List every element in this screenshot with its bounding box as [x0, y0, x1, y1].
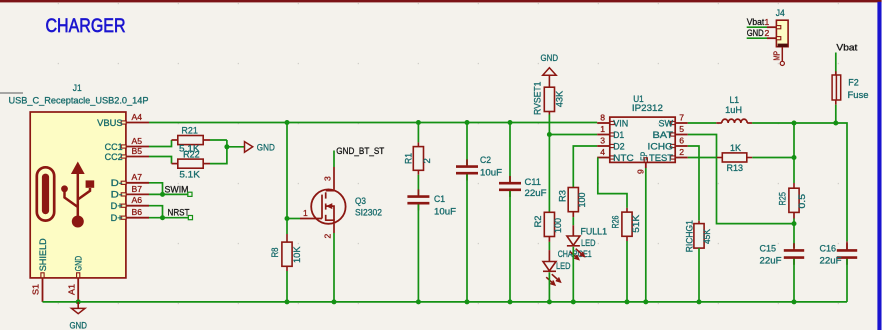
svg-text:CHARGER: CHARGER — [46, 15, 126, 37]
svg-text:J1: J1 — [73, 83, 82, 93]
svg-text:7: 7 — [679, 113, 684, 123]
U1 pin 8 VIN — [597, 122, 610, 124]
wire R8 to ground rail — [286, 271, 288, 302]
svg-text:4: 4 — [600, 147, 605, 157]
USB icon trident — [61, 162, 94, 228]
svg-text:IP2312: IP2312 — [632, 103, 663, 114]
transistor Q3 pin 1 gate lead — [300, 218, 322, 220]
resistor RVSET1 — [548, 75, 550, 87]
svg-text:VIN: VIN — [613, 118, 628, 128]
J1 pin B7 D- — [126, 193, 149, 195]
svg-text:BAT: BAT — [653, 130, 674, 140]
svg-text:C2: C2 — [480, 155, 491, 166]
svg-text:D-: D- — [111, 178, 123, 188]
junction CC pullup node — [224, 144, 229, 149]
wire VBUS rail — [149, 122, 597, 124]
resistor RICHG1 — [698, 221, 700, 224]
svg-text:22uF: 22uF — [525, 188, 547, 199]
wire C11 to ground rail — [509, 191, 511, 302]
svg-text:C11: C11 — [525, 177, 542, 188]
junction VBUS at R1 — [416, 120, 421, 125]
svg-text:R13: R13 — [727, 163, 744, 174]
wire R22 right and up to R21 — [203, 163, 210, 165]
resistor R3 — [568, 188, 578, 212]
transistor Q3 pin 2 source — [333, 224, 335, 233]
J1 pin A5 CC1 — [126, 146, 149, 148]
svg-text:GND: GND — [541, 53, 559, 64]
wire R2 to LED CHARGE1 — [548, 237, 550, 242]
svg-text:NRST: NRST — [168, 207, 190, 218]
capacitor C1 — [417, 189, 419, 196]
svg-text:22uF: 22uF — [760, 256, 782, 267]
svg-text:10uF: 10uF — [434, 207, 456, 218]
wire D1 node down to R2 — [548, 135, 550, 213]
svg-text:FULL1: FULL1 — [581, 227, 608, 237]
power symbol GND bottom — [77, 302, 79, 309]
resistor R2 — [544, 212, 554, 236]
junction ground rail at A1 — [76, 299, 81, 304]
capacitor C11 — [509, 176, 511, 183]
svg-text:B6: B6 — [132, 207, 143, 217]
U1 pin 6 ICHG — [675, 145, 688, 147]
junction ground rail at FULL1 — [571, 299, 576, 304]
junction R13 VBAT node — [792, 155, 797, 160]
svg-text:S1: S1 — [30, 284, 40, 295]
resistor R13 — [717, 157, 723, 159]
svg-text:GND: GND — [74, 256, 84, 272]
wire D1 node to U1 pin 1 — [549, 134, 597, 136]
svg-text:1: 1 — [303, 208, 308, 218]
wire R26 to ground rail — [626, 241, 628, 302]
USB icon receptacle pill — [37, 167, 54, 220]
connector J4 body — [776, 20, 788, 47]
J4 pin 1 Vbat — [747, 26, 767, 28]
wire VBUS down to Q3 gate and R8 — [286, 123, 288, 235]
wire L1 to VBAT corner — [752, 123, 847, 241]
J4 pin 2 GND — [747, 37, 767, 39]
wire Q3 drain to label — [333, 151, 335, 168]
svg-text:3: 3 — [323, 176, 333, 181]
svg-text:Vbat: Vbat — [747, 17, 765, 27]
resistor R22 — [178, 159, 203, 168]
svg-text:SHIELD: SHIELD — [38, 238, 48, 271]
gray partial line at left edge — [0, 92, 23, 94]
svg-text:2: 2 — [323, 234, 333, 239]
wire RICHG1 to ground rail — [698, 248, 700, 302]
svg-text:MP: MP — [772, 51, 782, 61]
wire RVSET1 to D1 node — [548, 115, 550, 135]
junction VBUS at C11 — [508, 120, 513, 125]
wire B6 D+ to NRST — [149, 217, 189, 219]
svg-text:2: 2 — [422, 158, 433, 163]
svg-text:100: 100 — [577, 193, 588, 208]
J1 pin S1 SHIELD stub — [42, 278, 44, 302]
svg-text:10K: 10K — [292, 246, 303, 263]
svg-text:5.1K: 5.1K — [179, 169, 200, 180]
svg-text:D+: D+ — [111, 213, 123, 223]
svg-text:B5: B5 — [132, 146, 143, 156]
wire VBUS to C2 — [466, 123, 468, 166]
svg-text:GND: GND — [69, 321, 87, 330]
svg-text:A7: A7 — [132, 172, 143, 182]
svg-text:Vbat: Vbat — [836, 42, 857, 53]
junction ground rail at C15 — [792, 299, 797, 304]
wire C1 to ground rail — [417, 204, 419, 302]
svg-text:R25: R25 — [778, 192, 789, 206]
svg-text:B7: B7 — [132, 184, 143, 194]
wire Q3 source to ground rail — [333, 233, 335, 302]
wire VBAT to R25 — [793, 123, 795, 183]
wire VBUS to C11 — [509, 123, 511, 183]
wire C15 to ground rail — [793, 259, 795, 302]
svg-text:R22: R22 — [183, 149, 200, 160]
ic U1 body — [610, 117, 675, 162]
svg-text:D-: D- — [111, 190, 123, 200]
svg-text:1: 1 — [600, 124, 605, 134]
top maroon border line — [0, 0, 883, 2]
wire U1 SW to L1 — [688, 122, 717, 124]
LED CHARGE1 — [543, 262, 560, 285]
wire LED CHARGE1 to ground rail — [548, 272, 550, 302]
wire R21 right — [203, 139, 210, 141]
wire EP to ground rail — [644, 158, 647, 163]
wire C2 to ground rail — [466, 174, 468, 302]
transistor Q3 body — [311, 189, 345, 223]
capacitor C15 — [793, 243, 795, 250]
svg-text:D1: D1 — [613, 130, 624, 140]
svg-text:GND_BT_ST: GND_BT_ST — [336, 146, 384, 156]
svg-text:USB_C_Receptacle_USB2.0_14P: USB_C_Receptacle_USB2.0_14P — [9, 96, 149, 107]
junction VBAT at R25 — [792, 121, 797, 126]
resistor R26 — [626, 208, 628, 212]
svg-text:A4: A4 — [132, 112, 143, 122]
wire R25 to battery node — [793, 212, 795, 218]
inductor L1 — [716, 122, 722, 124]
junction ground rail at CHARGE1 — [547, 299, 552, 304]
svg-text:10uF: 10uF — [480, 167, 502, 178]
U1 pin 7 SW — [675, 122, 688, 124]
svg-text:100: 100 — [553, 218, 564, 233]
U1 pin 3 D2 — [597, 145, 610, 147]
junction ground rail at C11 — [508, 299, 513, 304]
right blue border line — [877, 2, 881, 330]
svg-text:SW: SW — [659, 118, 674, 128]
svg-text:2: 2 — [679, 147, 684, 157]
wire CC2 to R22 — [149, 157, 172, 164]
resistor R21 — [178, 136, 203, 145]
J1 pin A1 GND stub — [77, 278, 79, 302]
junction ground rail at Q3 — [332, 299, 337, 304]
junction ground rail at EP — [643, 299, 648, 304]
wire VBUS to R1 — [417, 123, 419, 143]
svg-text:CC2: CC2 — [105, 152, 123, 162]
wire B7 D- to SWIM — [149, 193, 189, 195]
svg-text:8: 8 — [600, 113, 605, 123]
U1 pin 2 TEST — [675, 157, 688, 159]
junction VBAT at fuse — [833, 121, 838, 126]
junction ground rail at R26 — [625, 299, 630, 304]
J4 MP pins bar — [778, 44, 788, 47]
svg-text:LED: LED — [581, 238, 596, 248]
svg-text:RVSET1: RVSET1 — [532, 82, 543, 116]
wire U1 TEST to R13 — [688, 157, 717, 159]
wire A7 D- join — [149, 183, 163, 195]
J1 pin A6 D+ — [126, 205, 149, 207]
capacitor C16 — [846, 241, 848, 249]
svg-text:NTC: NTC — [613, 153, 634, 163]
svg-text:C15: C15 — [760, 244, 777, 255]
power symbol GND arrow right — [245, 142, 253, 153]
svg-text:0.5: 0.5 — [797, 194, 808, 209]
svg-text:ICHG: ICHG — [648, 141, 674, 151]
svg-text:6: 6 — [679, 136, 684, 146]
connector J1 body — [30, 112, 126, 278]
svg-text:1uH: 1uH — [725, 105, 742, 116]
svg-text:5: 5 — [679, 124, 684, 134]
wire R13 to VBAT node — [752, 157, 794, 159]
junction ground rail at R8 — [285, 299, 290, 304]
wire U1 BAT down to battery node — [688, 135, 794, 224]
svg-text:D+: D+ — [111, 201, 123, 211]
resistor R1 — [417, 142, 419, 146]
wire Vbat to fuse — [835, 53, 837, 76]
svg-text:GND: GND — [257, 142, 275, 153]
svg-text:43K: 43K — [554, 90, 565, 107]
svg-text:LED: LED — [556, 261, 571, 271]
svg-text:22uF: 22uF — [820, 256, 842, 267]
wire to GND arrow — [227, 146, 245, 148]
J1 pin B6 D+ — [126, 217, 149, 219]
svg-text:A5: A5 — [132, 136, 143, 146]
svg-text:R21: R21 — [181, 126, 198, 137]
junction VBUS at C2 — [465, 120, 470, 125]
wire battery node to C15 — [793, 224, 795, 248]
wire ground rail — [43, 301, 848, 303]
svg-text:A6: A6 — [132, 195, 143, 205]
wire U1 NTC to R26 — [598, 158, 627, 208]
transistor Q3 pin 3 drain — [333, 167, 335, 189]
junction battery node — [792, 221, 797, 226]
resistor R8 — [286, 234, 288, 242]
LED FULL1 — [567, 236, 584, 259]
svg-text:Fuse: Fuse — [848, 90, 869, 101]
wire LED FULL1 to ground rail — [572, 247, 574, 302]
J1 pin A7 D- — [126, 182, 149, 184]
junction VBUS at R8 — [285, 120, 290, 125]
svg-text:C1: C1 — [434, 194, 445, 205]
junction ground rail at C2 — [465, 299, 470, 304]
svg-text:A1: A1 — [67, 284, 77, 295]
junction ground rail at C1 — [416, 299, 421, 304]
J1 pin A4 VBUS — [126, 122, 149, 124]
wire U1 pin 3 D2 to R3 — [573, 146, 597, 187]
J4 MP pin stub — [781, 47, 783, 61]
svg-text:2: 2 — [765, 28, 770, 38]
svg-text:GND: GND — [747, 28, 764, 38]
U1 pin 4 NTC — [597, 157, 610, 159]
junction D1 node — [547, 132, 552, 137]
wire gate node to Q3 — [287, 218, 300, 220]
svg-text:J4: J4 — [776, 8, 785, 18]
junction ground rail at RICHG1 — [697, 299, 702, 304]
svg-text:VBUS: VBUS — [97, 118, 123, 128]
U1 pin 5 BAT — [675, 134, 688, 136]
wire R1 to C1 — [417, 175, 419, 195]
U1 pin 1 D1 — [597, 134, 610, 136]
svg-text:C16: C16 — [820, 244, 837, 255]
svg-text:SI2302: SI2302 — [355, 207, 382, 218]
svg-text:45K: 45K — [702, 228, 713, 244]
capacitor C2 — [466, 159, 468, 166]
svg-text:1: 1 — [765, 17, 770, 27]
svg-text:D2: D2 — [613, 141, 625, 151]
svg-text:TEST: TEST — [649, 153, 673, 163]
svg-text:CC1: CC1 — [105, 142, 123, 152]
junction D+ node — [160, 215, 165, 220]
fuse F2 — [835, 71, 837, 75]
wire CC1 to R21 — [149, 140, 172, 147]
J1 pin B5 CC2 — [126, 156, 149, 158]
junction D- node — [160, 192, 165, 197]
svg-text:SWIM: SWIM — [165, 185, 189, 196]
svg-text:F2: F2 — [848, 77, 859, 88]
resistor R25 — [793, 183, 795, 188]
svg-text:RICHG1: RICHG1 — [685, 220, 695, 252]
svg-text:R3: R3 — [557, 190, 568, 202]
wire C16 to ground rail — [846, 259, 848, 302]
svg-text:R2: R2 — [533, 216, 544, 228]
wire R3 to LED FULL1 — [572, 212, 574, 217]
svg-text:3: 3 — [600, 136, 605, 146]
wire fuse to VBAT rail — [835, 105, 837, 123]
svg-text:51K: 51K — [631, 214, 642, 233]
svg-text:R8: R8 — [270, 248, 281, 258]
svg-text:R26: R26 — [610, 216, 621, 229]
svg-text:1K: 1K — [730, 143, 742, 154]
svg-text:R1: R1 — [403, 153, 414, 164]
wire A6 D+ join — [149, 206, 163, 218]
svg-text:9: 9 — [636, 169, 646, 174]
svg-text:Q3: Q3 — [355, 196, 366, 207]
junction gate node — [285, 216, 290, 221]
wire U1 ICHG to RICHG1 — [688, 146, 699, 221]
